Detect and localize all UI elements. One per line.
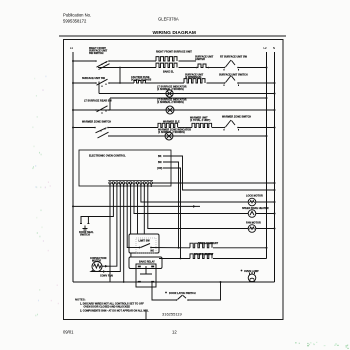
wire pin7 into limit box xyxy=(130,184,132,234)
switch door latch xyxy=(176,299,178,301)
wire N rail xyxy=(274,52,276,282)
switch left front surface unit xyxy=(95,82,97,84)
heating element coil upper xyxy=(156,57,177,61)
svg-text:OVEN LAMP: OVEN LAMP xyxy=(244,270,259,273)
svg-text:SW SWITCH: SW SWITCH xyxy=(89,52,104,55)
svg-text:ELECTRONIC OVEN CONTROL: ELECTRONIC OVEN CONTROL xyxy=(89,155,126,158)
fuse caution xyxy=(134,81,146,84)
svg-text:LIMIT SW: LIMIT SW xyxy=(139,240,151,243)
svg-text:12: 12 xyxy=(172,330,177,335)
svg-text:CONV FAN: CONV FAN xyxy=(100,275,113,278)
svg-text:L1: L1 xyxy=(70,46,74,50)
relay contact box xyxy=(136,264,156,287)
svg-text:(1 TOTAL 2 UNIT): (1 TOTAL 2 UNIT) xyxy=(190,119,210,122)
wire bottom main xyxy=(73,281,275,283)
switch warmer zone xyxy=(94,127,96,129)
switch limit xyxy=(139,247,141,249)
oven lamp xyxy=(248,274,256,282)
svg-text:2. COMPONENTS SHN - AT DO NOT: 2. COMPONENTS SHN - AT DO NOT APPEAR ON … xyxy=(80,310,149,313)
svg-text:BAKE RELAY: BAKE RELAY xyxy=(139,261,155,264)
wire pin10 lock feed xyxy=(141,184,248,202)
svg-text:(1 NORMAL 2 WORKS): (1 NORMAL 2 WORKS) xyxy=(157,88,184,91)
outer frame xyxy=(64,40,284,320)
svg-text:(1 NORMAL 2 WORKS): (1 NORMAL 2 WORKS) xyxy=(157,101,184,104)
wire pin6 to limit switch xyxy=(127,184,129,248)
wire row3a to L2 xyxy=(110,97,267,99)
svg-text:1. DISCARD WIRES NOT ALL CONTR: 1. DISCARD WIRES NOT ALL CONTROLS SET TO… xyxy=(80,303,144,306)
wire limit in xyxy=(128,247,130,249)
bake element coil xyxy=(159,258,190,260)
wire to N xyxy=(238,127,275,129)
svg-text:LIMITER: LIMITER xyxy=(195,58,205,61)
wire row1 upper xyxy=(73,60,96,62)
wire pin3 thermal drop xyxy=(109,184,117,266)
svg-text:LOCK MOTOR: LOCK MOTOR xyxy=(246,195,263,198)
switch right front surface unit (DP) xyxy=(95,60,97,62)
svg-text:L2: L2 xyxy=(264,46,268,50)
wire stub xyxy=(109,98,111,110)
switch surface unit xyxy=(224,82,226,84)
wire latch loop xyxy=(152,281,176,300)
wire EOC exit OR xyxy=(163,168,181,259)
convection motor xyxy=(92,262,102,272)
svg-text:SURFACE UNIT SW: SURFACE UNIT SW xyxy=(82,77,106,80)
wire L2 rail xyxy=(266,52,268,259)
svg-text:SURFACE UNIT SWITCH: SURFACE UNIT SWITCH xyxy=(219,74,248,77)
warmer element coil xyxy=(158,123,178,127)
svg-text:Publication No.: Publication No. xyxy=(63,13,91,18)
svg-text:SWITCH: SWITCH xyxy=(80,234,90,237)
fan motor M3 xyxy=(248,225,256,233)
wire lock to N xyxy=(256,201,275,203)
relay contacts xyxy=(140,266,152,274)
thermal fuse symbol xyxy=(83,226,88,231)
speed bake motor M2 xyxy=(248,210,256,218)
limit switch box xyxy=(129,234,159,253)
wire indicator row xyxy=(99,93,275,95)
indicator light surface xyxy=(166,90,173,97)
wire pin5 drop to bottom xyxy=(123,184,125,282)
svg-text:RT SURFACE UNIT SW: RT SURFACE UNIT SW xyxy=(220,56,248,59)
svg-text:NOTES:: NOTES: xyxy=(75,298,86,302)
broil element coil xyxy=(151,247,190,249)
wire pin1 drop xyxy=(109,184,111,282)
lock motor M1 xyxy=(248,198,256,206)
svg-text:WIRING DIAGRAM: WIRING DIAGRAM xyxy=(153,30,197,36)
wire L1 rail xyxy=(72,52,74,282)
switch warmer right xyxy=(224,127,226,129)
indicator light warmer zone xyxy=(165,132,173,140)
wire L1 feed xyxy=(73,205,200,207)
switch lt surface rear xyxy=(95,109,97,111)
wire pin9 into limit box xyxy=(137,184,139,234)
ground door latch xyxy=(165,292,167,294)
wire to N xyxy=(238,82,275,84)
indicator light lt surface xyxy=(166,106,174,114)
wire pin12 fan feed xyxy=(148,184,249,229)
svg-text:N: N xyxy=(273,46,275,50)
wire pin11 into limit box xyxy=(143,184,145,234)
svg-text:BAKE EL: BAKE EL xyxy=(163,71,174,74)
svg-text:DOOR LATCH SWITCH: DOOR LATCH SWITCH xyxy=(169,292,196,295)
svg-text:09/01: 09/01 xyxy=(63,330,74,335)
wire row2 xyxy=(73,82,96,84)
wire row3b xyxy=(73,109,275,111)
oven lamp rays xyxy=(250,272,255,275)
svg-text:5995358172: 5995358172 xyxy=(63,19,87,24)
svg-text:BN: BN xyxy=(158,161,162,164)
wire heater to N xyxy=(256,213,275,215)
wire pin2 door seal drop xyxy=(81,184,113,224)
wire convection lower loop with plug xyxy=(91,270,106,272)
wire row4a xyxy=(73,127,95,129)
svg-text:(OR): (OR) xyxy=(157,167,163,170)
wire fan to N xyxy=(256,228,275,230)
svg-text:SPEED BAKE HEATER: SPEED BAKE HEATER xyxy=(242,207,269,210)
svg-text:LT SURFACE REAR SW: LT SURFACE REAR SW xyxy=(84,100,112,103)
wire limit to relay stub xyxy=(130,253,132,257)
door seal switch xyxy=(81,217,88,224)
wire EOC exit BN xyxy=(163,162,179,248)
svg-text:WARMER ZONE SWITCH: WARMER ZONE SWITCH xyxy=(222,116,251,119)
svg-text:316255119: 316255119 xyxy=(162,312,183,317)
connector pins row xyxy=(108,179,153,181)
heating element left front xyxy=(184,79,205,83)
svg-text:BK: BK xyxy=(158,155,162,158)
svg-text:RIGHT FRONT SURFACE UNIT: RIGHT FRONT SURFACE UNIT xyxy=(156,51,192,54)
part number cell tick xyxy=(145,311,147,320)
heating element coil lower xyxy=(156,63,177,67)
wire pin4 thermal lower drop xyxy=(106,184,120,272)
electronic oven control box U1 xyxy=(79,150,171,186)
warmer limiter coil xyxy=(192,123,212,127)
svg-text:NO: NO xyxy=(151,250,155,253)
svg-text:OVEN DOOR CLOSED AND UNLOCKED: OVEN DOOR CLOSED AND UNLOCKED xyxy=(84,306,131,309)
oven relay K1 box xyxy=(129,257,162,269)
wire convection to pin3 with plug xyxy=(102,265,109,267)
title rule xyxy=(59,35,286,37)
label oven lamp xyxy=(241,270,243,272)
svg-text:GLEF378A: GLEF378A xyxy=(158,17,179,22)
wire row1 lower xyxy=(98,67,156,69)
svg-text:WARMER ZONE SWITCH: WARMER ZONE SWITCH xyxy=(82,121,111,124)
switch rt surface unit xyxy=(224,67,226,69)
wire pin8 heater feed xyxy=(134,184,248,214)
svg-text:FAN MOTOR: FAN MOTOR xyxy=(246,222,261,225)
wire pin13 to N xyxy=(153,182,275,184)
wire vertical x120 xyxy=(119,68,121,84)
wire row4b xyxy=(108,135,267,137)
wire EOC exit BK xyxy=(163,156,275,190)
